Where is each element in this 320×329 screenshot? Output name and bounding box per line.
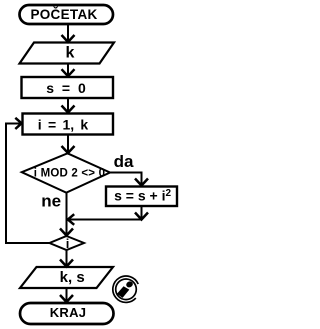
svg-text:POČETAK: POČETAK <box>30 7 97 22</box>
svg-text:i = 1, k: i = 1, k <box>38 116 89 132</box>
svg-text:KRAJ: KRAJ <box>50 305 87 320</box>
svg-text:ne: ne <box>41 192 61 211</box>
svg-text:k: k <box>66 45 75 62</box>
svg-text:k, s: k, s <box>60 269 85 286</box>
svg-text:s = 0: s = 0 <box>46 80 86 96</box>
svg-text:i: i <box>66 236 70 251</box>
svg-text:i MOD 2 <> 0: i MOD 2 <> 0 <box>34 168 105 180</box>
svg-text:s = s + i2: s = s + i2 <box>114 188 171 204</box>
svg-text:da: da <box>114 152 134 171</box>
